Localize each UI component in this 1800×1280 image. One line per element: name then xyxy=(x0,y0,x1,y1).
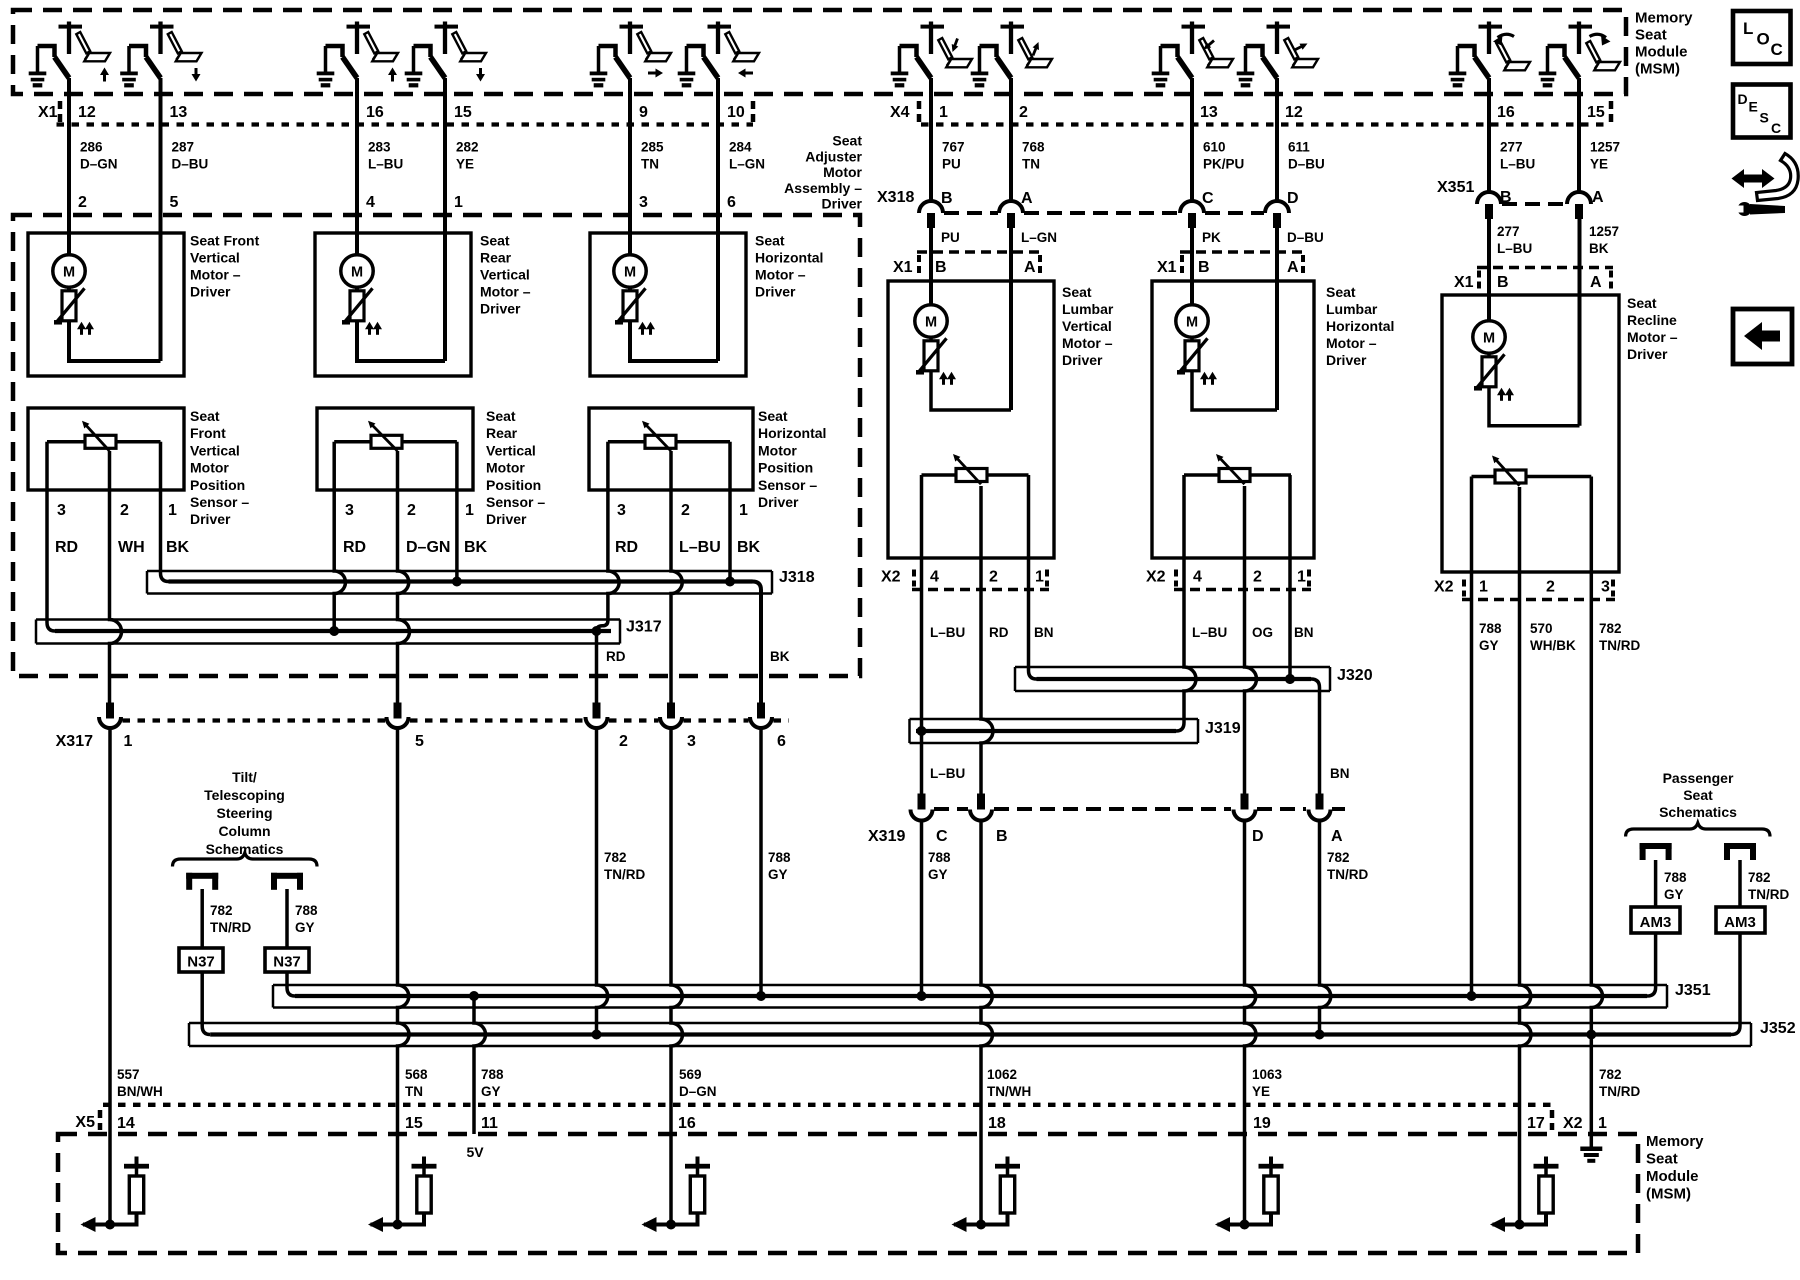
svg-text:5: 5 xyxy=(415,733,424,750)
wire 768 TN switch to X318-A xyxy=(1009,78,1013,202)
svg-text:RD: RD xyxy=(989,625,1009,640)
svg-text:Column: Column xyxy=(218,823,270,839)
svg-text:18: 18 xyxy=(988,1115,1006,1132)
svg-text:611: 611 xyxy=(1288,140,1310,155)
switch S2 seat front down xyxy=(129,22,202,82)
svg-text:Lumbar: Lumbar xyxy=(1062,301,1114,317)
svg-text:768: 768 xyxy=(1022,140,1045,155)
svg-text:D–BU: D–BU xyxy=(1287,230,1324,245)
connector X1 row (MSM to seat adjuster) xyxy=(38,101,753,125)
svg-text:D–GN: D–GN xyxy=(679,1084,717,1099)
MSM input resistor R17 xyxy=(1490,1157,1559,1233)
connector X1 recline xyxy=(1454,268,1613,292)
svg-text:Seat: Seat xyxy=(1683,787,1713,803)
svg-text:10: 10 xyxy=(727,104,745,121)
svg-text:Driver: Driver xyxy=(1326,352,1367,368)
svg-text:2: 2 xyxy=(120,502,129,519)
svg-text:J318: J318 xyxy=(779,569,815,586)
svg-text:Driver: Driver xyxy=(758,494,799,510)
wire 788 GY X319-C to J351 xyxy=(917,475,927,1001)
ground for switch S12 recline back xyxy=(1539,46,1557,87)
svg-text:788: 788 xyxy=(1479,621,1502,636)
wire 788 GY branch to MSM pin 11 (5V) xyxy=(469,991,486,1134)
svg-text:TN/RD: TN/RD xyxy=(1327,867,1368,882)
icon two-way arrow with wrench xyxy=(1732,154,1799,217)
svg-text:3: 3 xyxy=(57,502,66,519)
seat adjuster assembly pin numbers xyxy=(78,194,736,211)
svg-text:2: 2 xyxy=(1019,104,1028,121)
svg-text:BN: BN xyxy=(1034,625,1054,640)
svg-text:RD: RD xyxy=(55,539,78,556)
svg-text:A: A xyxy=(1331,828,1343,845)
svg-text:O: O xyxy=(1757,30,1770,49)
wire terminal to AM3 left xyxy=(1654,860,1658,907)
svg-text:BK: BK xyxy=(1589,241,1609,256)
bottom wire number labels xyxy=(117,1067,1640,1099)
svg-text:3: 3 xyxy=(345,502,354,519)
terminal to passenger seat 788 xyxy=(1640,843,1672,860)
svg-text:Motor: Motor xyxy=(758,442,797,458)
svg-text:782: 782 xyxy=(210,903,233,918)
svg-text:Schematics: Schematics xyxy=(1659,804,1737,820)
label: Memory Seat Module (MSM) top xyxy=(1635,10,1693,78)
svg-text:12: 12 xyxy=(78,104,96,121)
svg-text:M: M xyxy=(1186,315,1198,331)
splice AM3 (left) xyxy=(1631,907,1680,933)
svg-text:GY: GY xyxy=(928,867,948,882)
svg-text:B: B xyxy=(1198,259,1210,276)
svg-text:B: B xyxy=(941,190,953,207)
X351 pin letters xyxy=(1500,189,1604,206)
svg-text:19: 19 xyxy=(1253,1115,1271,1132)
MSM input resistor R14 xyxy=(81,1157,150,1233)
connector X1 lumbar-vertical xyxy=(893,252,1042,276)
svg-text:2: 2 xyxy=(989,569,998,586)
wire 557 BN/WH to MSM pin 14 xyxy=(108,728,112,1225)
MSM input resistor R16 xyxy=(642,1157,711,1233)
svg-text:Sensor –: Sensor – xyxy=(486,494,545,510)
splice pack N37 (right) xyxy=(265,948,309,972)
svg-text:2: 2 xyxy=(1253,569,1262,586)
X351 lower wire labels xyxy=(1497,224,1619,256)
svg-text:568: 568 xyxy=(405,1067,428,1082)
junction bus J318 (BK sensor commons) xyxy=(147,442,815,704)
svg-text:N37: N37 xyxy=(273,954,301,971)
X319 pin letters xyxy=(936,828,1343,845)
connector X2 lumbar-vertical xyxy=(881,569,1049,590)
svg-text:16: 16 xyxy=(1497,104,1515,121)
ground for switch S8 lumbar up xyxy=(971,46,989,87)
svg-text:Sensor –: Sensor – xyxy=(190,494,249,510)
connector X1 lumbar-horizontal xyxy=(1157,252,1305,276)
Seat Horizontal Motor - Driver M3 xyxy=(590,78,746,376)
svg-text:Vertical: Vertical xyxy=(1062,318,1112,334)
position sensor pot inside Seat Lumbar Vertical Motor - Driver M4 xyxy=(922,454,1029,484)
svg-text:1257: 1257 xyxy=(1590,140,1620,155)
switch S10 lumbar out xyxy=(1246,22,1319,79)
terminal to steering column circuit 788 xyxy=(271,873,303,890)
svg-text:3: 3 xyxy=(639,194,648,211)
svg-text:6: 6 xyxy=(727,194,736,211)
label: Tilt/Telescoping Steering Column Schematics xyxy=(204,769,285,857)
label: Seat Front Vertical Motor Position Sensor - Driver xyxy=(190,408,249,527)
switch S6 seat rearward xyxy=(687,22,760,79)
svg-text:BK: BK xyxy=(166,539,190,556)
svg-text:TN/RD: TN/RD xyxy=(1748,887,1789,902)
switch S5 seat forward xyxy=(599,22,672,79)
svg-text:Driver: Driver xyxy=(480,301,521,317)
svg-text:287: 287 xyxy=(172,140,195,155)
icon DESC box xyxy=(1733,85,1791,138)
svg-text:Seat: Seat xyxy=(190,408,220,424)
svg-text:277: 277 xyxy=(1497,224,1520,239)
switch S11 recline fwd xyxy=(1458,22,1531,79)
connector X351 xyxy=(1437,179,1591,219)
svg-text:B: B xyxy=(935,259,947,276)
svg-text:L–BU: L–BU xyxy=(930,625,965,640)
label 5V xyxy=(466,1144,484,1160)
connector X5 row xyxy=(75,1105,1607,1132)
connector X317 xyxy=(56,703,789,751)
label: Seat Lumbar Horizontal Motor - Driver M5 xyxy=(1326,284,1394,368)
svg-text:D: D xyxy=(1252,828,1264,845)
svg-text:4: 4 xyxy=(366,194,375,211)
svg-text:Horizontal: Horizontal xyxy=(1326,318,1394,334)
connector X2 lumbar-horizontal xyxy=(1146,569,1311,590)
svg-text:Tilt/: Tilt/ xyxy=(232,769,257,785)
svg-text:1: 1 xyxy=(1035,569,1044,586)
wire BK3 sensor3 pin1 to J318 xyxy=(728,442,732,582)
svg-text:3: 3 xyxy=(1601,579,1610,596)
svg-text:B: B xyxy=(996,828,1008,845)
label L-BU above X319-C xyxy=(930,766,965,781)
svg-text:9: 9 xyxy=(639,104,648,121)
MSM input resistor R18 xyxy=(952,1157,1021,1233)
wire 557 BN/WH pin1 (WH sensor wiper 1) xyxy=(110,451,122,704)
svg-text:TN: TN xyxy=(405,1084,423,1099)
wire 569 D-GN to MSM pin 16 xyxy=(671,728,683,1225)
svg-text:Driver: Driver xyxy=(1062,352,1103,368)
junction bus J319 (L-BU) xyxy=(910,590,1241,744)
svg-text:Position: Position xyxy=(190,477,245,493)
svg-text:X1: X1 xyxy=(1157,259,1177,276)
label BN above X319-A xyxy=(1330,766,1350,781)
svg-text:782: 782 xyxy=(1599,1067,1622,1082)
svg-text:PK/PU: PK/PU xyxy=(1203,157,1244,172)
svg-text:Driver: Driver xyxy=(190,284,231,300)
svg-text:BN/WH: BN/WH xyxy=(117,1084,163,1099)
icon left arrow box xyxy=(1733,309,1792,364)
svg-text:11: 11 xyxy=(481,1115,498,1132)
wire L-BU3 sensor3 wiper to X317-3 xyxy=(671,451,682,704)
svg-text:Driver: Driver xyxy=(1627,346,1668,362)
svg-text:285: 285 xyxy=(641,140,664,155)
junction bus J317 (RD sensor commons) xyxy=(36,442,662,644)
wire labels under X2 rows xyxy=(930,621,1640,653)
label: Seat Front Vertical Motor - Driver M1 xyxy=(190,233,260,300)
svg-text:Seat: Seat xyxy=(486,408,516,424)
wire L-BU lumbar-horiz pin4 upper segment xyxy=(1182,475,1186,590)
svg-text:A: A xyxy=(1590,274,1602,291)
svg-text:15: 15 xyxy=(454,104,472,121)
svg-text:2: 2 xyxy=(619,733,628,750)
svg-text:A: A xyxy=(1592,189,1604,206)
svg-text:PU: PU xyxy=(941,230,960,245)
position sensor pot inside Seat Lumbar Horizontal Motor - Driver M5 xyxy=(1184,454,1291,484)
svg-text:6: 6 xyxy=(777,733,786,750)
label: Memory Seat Module (MSM) bottom xyxy=(1646,1133,1704,1203)
terminal to passenger seat 782 xyxy=(1724,843,1756,860)
svg-text:X351: X351 xyxy=(1437,179,1474,196)
svg-text:X5: X5 xyxy=(75,1114,95,1131)
svg-text:12: 12 xyxy=(1285,104,1303,121)
label: Passenger Seat Schematics xyxy=(1659,770,1737,820)
X318 pin letters xyxy=(941,190,1299,207)
svg-text:(MSM): (MSM) xyxy=(1635,61,1680,78)
wire 611 D-BU switch to X318-D xyxy=(1275,78,1279,202)
svg-text:Telescoping: Telescoping xyxy=(204,787,285,803)
svg-text:L–GN: L–GN xyxy=(729,157,765,172)
svg-text:557: 557 xyxy=(117,1067,140,1082)
svg-text:Seat: Seat xyxy=(758,408,788,424)
svg-text:J319: J319 xyxy=(1205,720,1241,737)
connector X2 recline xyxy=(1434,579,1615,600)
ground for switch S4 seat rear down xyxy=(405,46,423,87)
svg-text:N37: N37 xyxy=(187,954,215,971)
svg-text:1257: 1257 xyxy=(1589,224,1619,239)
wire 610 PK/PU switch to X318-C xyxy=(1190,78,1194,202)
MSM input resistor R19 xyxy=(1215,1157,1284,1233)
svg-text:Driver: Driver xyxy=(190,511,231,527)
label: Seat Horizontal Motor Position Sensor - Driver xyxy=(758,408,826,510)
wire N37-right to J351 xyxy=(287,972,295,996)
svg-text:Motor –: Motor – xyxy=(480,284,531,300)
svg-text:5: 5 xyxy=(170,194,179,211)
wire 1257 YE switch to X351-A xyxy=(1577,78,1581,193)
svg-text:Position: Position xyxy=(486,477,541,493)
svg-text:Recline: Recline xyxy=(1627,312,1677,328)
wire 782 TN/RD X317-2 to J352 xyxy=(592,728,608,1040)
svg-text:Motor –: Motor – xyxy=(1326,335,1377,351)
svg-text:16: 16 xyxy=(366,104,384,121)
ground G (MSM internal) xyxy=(1580,1147,1602,1163)
labels 788 GY / 782 TN/RD (passenger) xyxy=(1664,870,1789,902)
svg-text:GY: GY xyxy=(1479,638,1499,653)
svg-text:Motor –: Motor – xyxy=(190,267,241,283)
svg-text:YE: YE xyxy=(1590,157,1608,172)
svg-text:PK: PK xyxy=(1202,230,1221,245)
svg-text:3: 3 xyxy=(687,733,696,750)
svg-text:14: 14 xyxy=(117,1115,135,1132)
svg-text:1: 1 xyxy=(1297,569,1306,586)
svg-text:C: C xyxy=(1771,40,1783,59)
svg-text:782: 782 xyxy=(1748,870,1771,885)
svg-text:Assembly –: Assembly – xyxy=(784,180,862,196)
wire BK2 sensor2 pin1 to J318 xyxy=(455,442,459,582)
svg-text:1: 1 xyxy=(465,502,474,519)
svg-text:Vertical: Vertical xyxy=(190,442,240,458)
ground for switch S5 seat forward xyxy=(590,46,608,87)
svg-text:Rear: Rear xyxy=(486,425,518,441)
svg-text:TN/WH: TN/WH xyxy=(987,1084,1031,1099)
ground for switch S2 seat front down xyxy=(120,46,138,87)
switch S1 seat front up xyxy=(38,22,111,82)
svg-text:1062: 1062 xyxy=(987,1067,1017,1082)
wire D-GN sensor2 wiper to X317-5 xyxy=(398,451,410,704)
Seat Adjuster Motor Assembly - Driver dashed box xyxy=(13,215,860,676)
svg-text:Motor: Motor xyxy=(190,460,229,476)
svg-text:D: D xyxy=(1738,91,1748,107)
wire 782 TN/RD to N37 xyxy=(200,889,204,948)
svg-text:AM3: AM3 xyxy=(1724,914,1756,931)
svg-text:X317: X317 xyxy=(56,733,93,750)
svg-text:Seat: Seat xyxy=(1627,295,1657,311)
switch S8 lumbar up xyxy=(980,22,1053,79)
svg-text:L–BU: L–BU xyxy=(679,539,721,556)
label: Seat Adjuster Motor Assembly - Driver xyxy=(784,133,862,212)
svg-text:Motor –: Motor – xyxy=(1062,335,1113,351)
wire labels circuit numbers (top) xyxy=(80,140,1620,172)
svg-text:782: 782 xyxy=(1327,850,1350,865)
svg-text:M: M xyxy=(925,315,937,331)
svg-text:610: 610 xyxy=(1203,140,1226,155)
wire 568 TN to MSM pin 15 xyxy=(398,728,410,1225)
svg-text:M: M xyxy=(63,265,75,281)
svg-text:569: 569 xyxy=(679,1067,702,1082)
svg-text:1: 1 xyxy=(1479,579,1488,596)
Seat Front Vertical Motor - Driver M1 xyxy=(28,78,184,376)
svg-text:1: 1 xyxy=(454,194,463,211)
svg-text:TN/RD: TN/RD xyxy=(1599,1084,1640,1099)
svg-text:Passenger: Passenger xyxy=(1663,770,1734,786)
svg-text:PU: PU xyxy=(942,157,961,172)
svg-text:C: C xyxy=(936,828,948,845)
svg-text:Memory: Memory xyxy=(1635,10,1693,27)
wire number labels below X317 and X319 xyxy=(604,850,1368,882)
ground for switch S1 seat front up xyxy=(29,46,47,87)
svg-text:788: 788 xyxy=(928,850,951,865)
wire 788 GY recline pot to J351 xyxy=(1467,477,1477,1002)
label: Seat Rear Vertical Motor - Driver M2 xyxy=(480,233,531,317)
svg-text:1: 1 xyxy=(124,733,133,750)
ground for switch S11 recline fwd xyxy=(1449,46,1467,87)
svg-text:1: 1 xyxy=(739,502,748,519)
svg-text:Rear: Rear xyxy=(480,250,512,266)
svg-text:YE: YE xyxy=(1252,1084,1270,1099)
svg-text:15: 15 xyxy=(405,1115,423,1132)
junction bus J351 (788 GY) xyxy=(273,933,1711,1008)
ground for switch S3 seat rear up xyxy=(317,46,335,87)
svg-text:BK: BK xyxy=(737,539,761,556)
svg-text:WH: WH xyxy=(118,539,145,556)
svg-text:J352: J352 xyxy=(1760,1020,1796,1037)
svg-text:283: 283 xyxy=(368,140,391,155)
wire BN lumbar-horiz pin1 to J320 junction xyxy=(1285,475,1295,684)
svg-text:Motor: Motor xyxy=(823,164,862,180)
svg-text:Position: Position xyxy=(758,460,813,476)
svg-text:B: B xyxy=(1500,189,1512,206)
svg-text:Front: Front xyxy=(190,425,226,441)
wire 570 WH/BK recline wiper to MSM pin 17 xyxy=(1520,487,1532,1225)
svg-text:L–BU: L–BU xyxy=(1192,625,1227,640)
svg-text:Motor –: Motor – xyxy=(755,267,806,283)
svg-text:Adjuster: Adjuster xyxy=(805,148,862,164)
wire 788 GY to N37 xyxy=(285,889,289,948)
wire 782 TN/RD recline pot to J352 and ground xyxy=(1586,477,1602,1147)
wire 788 GY X317-6 to J351 xyxy=(756,728,766,1002)
svg-text:X2: X2 xyxy=(1563,1115,1583,1132)
Seat Lumbar Horizontal Motor - Driver M5 xyxy=(1152,228,1314,558)
svg-text:L–BU: L–BU xyxy=(930,766,965,781)
labels RD and BK below J317/J318 xyxy=(606,649,790,664)
svg-text:277: 277 xyxy=(1500,140,1523,155)
X318 lower wire color labels xyxy=(941,230,1324,245)
svg-text:OG: OG xyxy=(1252,625,1273,640)
switch S3 seat rear up xyxy=(326,22,399,82)
X317 pin numbers xyxy=(124,733,787,750)
wire RD2 sensor2 pin3 to J317 xyxy=(334,442,345,631)
icon LOC box xyxy=(1733,11,1791,64)
svg-text:2: 2 xyxy=(681,502,690,519)
svg-text:TN/RD: TN/RD xyxy=(604,867,645,882)
label: Seat Lumbar Vertical Motor - Driver M4 xyxy=(1062,284,1114,368)
svg-text:Module: Module xyxy=(1646,1168,1699,1185)
Seat Rear Vertical Motor - Driver M2 xyxy=(315,78,471,376)
svg-text:TN/RD: TN/RD xyxy=(210,920,251,935)
svg-text:A: A xyxy=(1024,259,1036,276)
svg-text:BN: BN xyxy=(1330,766,1350,781)
svg-text:J317: J317 xyxy=(626,619,662,636)
ground for switch S10 lumbar out xyxy=(1237,46,1255,87)
label: Seat Horizontal Motor - Driver M3 xyxy=(755,233,823,300)
svg-text:TN: TN xyxy=(641,157,659,172)
svg-text:788: 788 xyxy=(1664,870,1687,885)
svg-text:Vertical: Vertical xyxy=(486,442,536,458)
svg-text:L–GN: L–GN xyxy=(1021,230,1057,245)
wire 1062 TN/WH X319-B to MSM pin 18 xyxy=(981,486,993,1225)
svg-text:M: M xyxy=(351,265,363,281)
svg-text:C: C xyxy=(1202,190,1214,207)
position sensor pot inside Seat Recline Motor - Driver M6 xyxy=(1472,456,1592,486)
svg-text:RD: RD xyxy=(615,539,638,556)
brace passenger seat xyxy=(1626,823,1770,837)
svg-text:YE: YE xyxy=(456,157,474,172)
svg-text:Seat: Seat xyxy=(1326,284,1356,300)
svg-text:1: 1 xyxy=(1598,1115,1607,1132)
label: Seat Recline Motor - Driver M6 xyxy=(1627,295,1678,362)
wire 277 L-BU switch to X351-B xyxy=(1487,78,1491,193)
svg-text:WH/BK: WH/BK xyxy=(1530,638,1576,653)
labels 782 TN/RD and 788 GY (steering column) xyxy=(210,903,318,935)
svg-text:(MSM): (MSM) xyxy=(1646,1186,1691,1203)
svg-text:TN/RD: TN/RD xyxy=(1599,638,1640,653)
svg-text:282: 282 xyxy=(456,140,479,155)
svg-text:Horizontal: Horizontal xyxy=(758,425,826,441)
svg-text:BK: BK xyxy=(464,539,488,556)
svg-text:A: A xyxy=(1287,259,1299,276)
svg-text:L: L xyxy=(1743,19,1753,38)
svg-text:X4: X4 xyxy=(890,104,910,121)
svg-text:GY: GY xyxy=(1664,887,1684,902)
svg-text:1: 1 xyxy=(168,502,177,519)
svg-text:E: E xyxy=(1749,99,1758,115)
Seat Rear Vertical Motor Position Sensor - Driver xyxy=(317,408,473,490)
svg-text:Vertical: Vertical xyxy=(190,250,240,266)
svg-text:Seat: Seat xyxy=(1646,1151,1678,1168)
label: Seat Rear Vertical Motor Position Sensor - Driver xyxy=(486,408,545,527)
MSM input resistor R15 xyxy=(368,1157,437,1233)
svg-text:1: 1 xyxy=(939,104,948,121)
